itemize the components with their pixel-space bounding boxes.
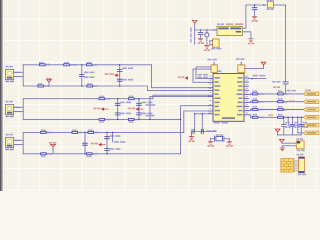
wire J3 pin1 (14, 139, 23, 141)
label Y2 (216, 134, 223, 136)
label CF1 value (285, 126, 290, 128)
label U1 pin name right 2 (237, 81, 243, 83)
label net left of U1 b (146, 115, 155, 117)
pin Y1 b (210, 44, 213, 46)
label red flag left U1 (178, 76, 185, 78)
resistor RO3 (252, 101, 258, 103)
label U2 value (226, 23, 243, 25)
label J4 value (298, 174, 306, 176)
label R8 value inline (105, 119, 110, 121)
junction row2 end (180, 119, 182, 121)
label CF2 (294, 122, 298, 124)
power arrow row1 (115, 74, 120, 77)
label R11 value inline (78, 132, 82, 134)
label U1 pin number right 2 (246, 80, 248, 81)
label U1 pin number right 9 (246, 108, 248, 109)
capacitor CF2 (290, 125, 294, 127)
junction row1 a (81, 64, 83, 66)
connector J2 (6, 104, 20, 114)
wire capf gnd rail (278, 134, 302, 136)
label J2 (6, 101, 13, 103)
junction vin b (206, 29, 208, 31)
label R9 value inline (135, 119, 139, 121)
label Y3 (296, 138, 303, 140)
label VCAP (287, 90, 296, 92)
pin U1 left 2 (209, 81, 214, 83)
capacitor C6 (137, 103, 142, 105)
pin U1 left 5 (209, 94, 214, 96)
wire C13 stub top (254, 5, 256, 8)
wire Y2 gnd right stub (228, 139, 230, 141)
label X2 (236, 58, 244, 60)
label C3 (122, 79, 133, 81)
capacitor C13 (252, 8, 257, 10)
label RO2 value (284, 93, 288, 95)
junction row1 b (81, 85, 83, 87)
port P4 (303, 116, 319, 120)
wire caps C9C10 vertical (106, 132, 108, 153)
label R1 value inline (46, 64, 50, 66)
wire X1 to U1 pin1 (196, 67, 211, 79)
junction row1 c (119, 64, 121, 66)
wire VOUT (242, 5, 267, 28)
label RO1 (253, 90, 257, 92)
pin X1 top (213, 62, 215, 65)
label R4 value inline (44, 85, 49, 87)
junction row3 c (106, 132, 108, 134)
wire split vertical J2 (22, 99, 24, 120)
label U1 pin name left 10 (214, 114, 219, 116)
capacitor CF3 (299, 125, 303, 127)
label J4 (297, 154, 304, 156)
ground Y2 right (227, 141, 231, 144)
label RO7 value (258, 117, 263, 119)
label R14 (87, 156, 91, 158)
resistor R11 (72, 131, 78, 133)
label U1 pin number right 5 (246, 92, 248, 93)
port P6 (303, 131, 319, 135)
wire C11 stub top (200, 30, 202, 33)
label U1 pin number left 6 (209, 96, 211, 97)
junction right pin1 (251, 78, 253, 80)
junction row3 e (112, 132, 114, 134)
label Y3 value (297, 150, 305, 152)
label U1 pin number right 3 (246, 84, 248, 85)
label R3 (87, 62, 91, 64)
regulator U2 body (217, 26, 242, 35)
junction row2 d (138, 119, 140, 121)
label U1 pin name right 4 (237, 89, 242, 91)
label U1 pin name left 7 (214, 102, 219, 104)
label RO6 (278, 106, 282, 108)
wire cap CB drop (201, 114, 203, 132)
label U1 pin name left 1 (214, 77, 220, 79)
label net right pin1 (253, 75, 266, 77)
label U1 pin name left 8 (214, 106, 218, 108)
wire port5 stub (288, 124, 303, 126)
junction vin a (200, 29, 202, 31)
capacitor C10 (105, 149, 110, 151)
port P1 (303, 92, 319, 96)
label GND C11 (198, 42, 204, 44)
label C10 (110, 148, 121, 150)
power arrow row3 (99, 143, 105, 146)
wire Y2 gnd left stub (210, 139, 212, 141)
label U1 pin name right 8 (237, 106, 243, 108)
wire VREF stem row3 (52, 148, 54, 154)
label U1 pin name left 6 (214, 98, 220, 100)
label R9 (129, 121, 133, 123)
wire Y1 left link (209, 41, 211, 45)
resistor R7 (128, 98, 134, 100)
junction capf 3 (300, 117, 302, 119)
wire row2 bottom riser to IC (150, 97, 209, 120)
label R4 (38, 83, 42, 85)
wire VIN (195, 29, 213, 31)
label GND C13 (252, 20, 258, 22)
wire Y3 pin1 (282, 142, 297, 144)
pin U1 left 8 (209, 110, 214, 112)
label RO7 (253, 114, 257, 116)
label R11 (72, 129, 76, 131)
label U1 pin number right 1 (246, 76, 248, 77)
label R13 (41, 156, 45, 158)
label RO6 value (284, 109, 288, 111)
junction p56 a (287, 117, 289, 119)
label U1 pin number left 9 (209, 108, 211, 109)
pin U1 left 3 (209, 87, 214, 89)
label C2 (122, 67, 133, 69)
label Y1 (211, 48, 221, 50)
wire caps under U1 (192, 131, 216, 133)
label RO8 value (284, 117, 288, 119)
label U1 pin number left 8 (209, 104, 211, 105)
resistor R4 (38, 85, 44, 87)
wire J1 to split (14, 71, 23, 73)
label U1 pin name right 7 (238, 102, 243, 104)
pin U1 right 10 (244, 114, 249, 116)
capacitor C1 (79, 74, 84, 76)
capacitor C5 (115, 113, 120, 115)
label net stub row3 (114, 141, 125, 143)
wire row3 bottom rail (23, 153, 180, 155)
sheet background (0, 0, 320, 191)
resistor R1 (40, 64, 46, 66)
wire row3 top to IC (184, 111, 209, 132)
wire J2 pin1 (14, 106, 23, 108)
wire out row 3 (249, 110, 304, 111)
junction row2 a (117, 98, 119, 100)
label red net row4 (269, 114, 273, 116)
power port +5V (192, 21, 197, 25)
label net row3 (91, 143, 98, 145)
label R3 value inline (92, 64, 96, 66)
label net row2 b (128, 108, 135, 110)
wire U1 lower pin wire (195, 113, 209, 115)
label C15 C16 (207, 130, 217, 132)
label U1 (214, 70, 222, 72)
junction capf 1 (283, 117, 285, 119)
label C6 (142, 102, 153, 104)
ic Y1 body (213, 39, 220, 47)
wire row1 top to IC (152, 65, 209, 88)
wire C12 stub bottom (206, 38, 208, 45)
label R13 value inline (47, 153, 52, 155)
label U1 pin name right 6 (238, 98, 242, 100)
label U1 pin number left 4 (209, 88, 211, 89)
wire capf 2 top stub (292, 117, 294, 124)
resistor R13 (41, 153, 47, 155)
ic X2 body (238, 65, 245, 73)
label GND U2 (248, 43, 254, 45)
wire X1 to U1 pin2 (193, 69, 211, 82)
resistor R14 (86, 153, 92, 155)
wire C11 stub bottom (200, 35, 202, 38)
label U1 pin name right 9 (238, 110, 242, 112)
label R10 value inline (47, 132, 52, 134)
capacitor C8 (83, 143, 88, 145)
ground C13 (252, 16, 256, 19)
wire Y2 right (224, 138, 229, 140)
wire capf1 bot (283, 127, 285, 135)
wire capf 1 top stub (283, 117, 285, 124)
pin U1 left 9 (209, 113, 214, 115)
label net left of U1 a (146, 104, 156, 106)
power arrow row2 a (102, 108, 109, 111)
pin U1 right 7 (244, 102, 249, 104)
wire capf3 bot (300, 127, 302, 135)
label C5 (120, 113, 131, 115)
wire row1 top rail (23, 64, 151, 66)
wire row3 bottom to IC (181, 106, 209, 154)
junction c13 (254, 4, 256, 6)
pin U1 left 1 (209, 78, 214, 80)
pin U1 left 4 (209, 90, 214, 92)
wire cap C1 vertical (81, 65, 83, 86)
wire caps C4C5 vertical (117, 99, 119, 120)
label U1 pin number left 1 (209, 76, 211, 77)
pin U1 right 9 (244, 110, 249, 112)
wire port6 stub (298, 132, 304, 134)
label U1 pin number left 7 (209, 100, 211, 101)
crystal Y2 body (215, 136, 224, 142)
wire VCC vertical lower (285, 84, 287, 94)
wire cap CA drop (194, 114, 196, 132)
capacitor C4 (115, 103, 120, 105)
resistor RO2 (278, 93, 284, 95)
label U1 pin number left 3 (209, 84, 211, 85)
label U1 pin name right 3 (238, 85, 242, 87)
pin X2 top (240, 62, 242, 65)
junction row2 b (117, 119, 119, 121)
label C14 (272, 81, 280, 83)
label C9 (110, 135, 121, 137)
left sheet edge (0, 0, 2, 191)
label GND C15 (189, 140, 195, 142)
resistor R3 (86, 64, 92, 66)
label CF2 value (294, 126, 299, 128)
wire J2 pin2 (14, 111, 23, 113)
label R8 (99, 121, 103, 123)
oscillator X1 body (211, 65, 217, 73)
pin U1 right 4 (244, 89, 249, 91)
resistor RO1 (252, 93, 258, 95)
label net flag red (273, 86, 280, 88)
wire net stub row3 (112, 132, 114, 142)
label CF3 (303, 122, 307, 124)
label RO3 (253, 98, 257, 100)
pin U1 right 5 (244, 93, 249, 95)
junction cap CA drop (194, 113, 196, 115)
label net row1 (105, 73, 114, 75)
wire tri2 stem (281, 141, 283, 144)
wire C13 stub bottom (254, 10, 256, 16)
label U1 pin number right 10 (246, 112, 248, 113)
label U1 pin name left 5 (214, 94, 218, 96)
label GND Y2 left (208, 145, 214, 147)
label U2 (217, 23, 224, 25)
label R6 value inline (105, 98, 110, 100)
label RO4 value (284, 101, 288, 103)
label CF1 (285, 122, 289, 124)
label R10 (41, 129, 45, 131)
wire cap C8 vertical (84, 132, 86, 153)
label OSCIN (198, 74, 208, 76)
wire C12 stub top (206, 30, 208, 32)
port P5 (303, 123, 319, 127)
junction row1 d (119, 85, 121, 87)
junction row3 d (106, 153, 108, 155)
wire +5V vertical (194, 25, 196, 45)
ground Y2 left (208, 141, 212, 144)
junction p56 b (297, 117, 299, 119)
label U1 pin name left 9 (214, 110, 220, 112)
power port VCC tri (261, 62, 266, 65)
pin U1 left 7 (209, 105, 214, 107)
connector JP1 striped block (281, 159, 294, 172)
wire split vertical J3 (22, 132, 24, 153)
resistor RO7 (252, 116, 258, 118)
wire row2 top to IC (153, 95, 209, 99)
label U1 pin name right 1 (238, 77, 243, 79)
resistor RO6 (278, 108, 284, 110)
label U1 pin name left 2 (214, 81, 218, 83)
label red out top (305, 90, 311, 92)
wire Y3 pin2 (282, 145, 296, 147)
label C4 (120, 102, 131, 104)
label U1 pin number right 8 (246, 104, 248, 105)
label VREF row1 (46, 78, 51, 80)
label U1 part number (214, 122, 229, 124)
wire row3 top rail (23, 131, 184, 133)
label RO5 value (258, 109, 263, 111)
pin U2 VIN (213, 29, 217, 31)
label R7 (129, 96, 133, 98)
label R5 (87, 83, 91, 85)
label C7 (142, 113, 153, 115)
resistor R9 (128, 118, 134, 120)
capacitor C14 on vertical (283, 82, 288, 84)
junction cap CB drop (202, 113, 204, 115)
ground chain (280, 148, 284, 151)
resistor R8 (99, 118, 105, 120)
label F1 value (267, 8, 274, 10)
capacitor C11 (198, 33, 203, 35)
label C1 value (84, 76, 94, 78)
label net row2 a (93, 108, 100, 110)
wire caps C2C3 vertical (119, 65, 121, 86)
label RO4 (278, 98, 282, 100)
ground U2 (249, 39, 253, 42)
label OSCOUT (198, 77, 208, 79)
resistor R2 (64, 64, 70, 66)
wire C15 gnd stub (191, 132, 193, 137)
label GND C12 (204, 49, 210, 51)
label R2 (64, 62, 68, 64)
wire row1 bottom to IC (147, 86, 208, 91)
wire split vertical J1 (22, 65, 24, 86)
label R6 (99, 96, 103, 98)
wire out row 4 (249, 115, 304, 118)
pin U1 left 6 (209, 96, 214, 98)
power arrow row2 b (136, 108, 143, 111)
connector J3 (6, 137, 20, 147)
label RO1 value (258, 93, 263, 95)
label F1 (267, 0, 273, 2)
pins JP1 to J4 (294, 161, 299, 171)
capacitor C15 (192, 129, 194, 133)
label RO5 (253, 106, 257, 108)
wire capf 3 top stub (300, 117, 302, 124)
label red net row2 (290, 100, 295, 102)
connector J1 body (6, 69, 20, 79)
power port VREF row1 (47, 80, 52, 84)
label R14 value inline (93, 153, 97, 155)
label R2 value inline (70, 64, 76, 66)
resistor R5 (87, 85, 93, 87)
ground C11 (198, 38, 202, 41)
wire caps C6C7 vertical (138, 99, 140, 120)
wire row1 bottom rail (23, 85, 147, 87)
ground C15 (189, 137, 193, 140)
label R7 value inline (135, 98, 139, 100)
label CON2 J2 (6, 116, 14, 118)
wire VREF stem row1 (48, 81, 50, 86)
pin Y1 a (210, 40, 213, 42)
capacitor CF1 (282, 125, 286, 127)
pin U1 right 1 (244, 77, 249, 79)
junction row3 b (84, 153, 86, 155)
pin U1 right 2 (244, 81, 249, 83)
label VREF row3 (49, 142, 56, 144)
label J1 (6, 66, 13, 68)
wire row2 bottom rail (23, 118, 180, 120)
junction capf 2 (292, 117, 294, 119)
label CF3 value (303, 126, 308, 128)
label U1 pin number right 7 (246, 100, 248, 101)
ferrite bead F1 body (267, 1, 273, 8)
label +5V vertical text (190, 28, 192, 43)
capacitor C9 (105, 137, 110, 139)
label U1 pin number left 5 (209, 92, 211, 93)
label R1 (39, 62, 43, 64)
label CON2 J1 (6, 81, 14, 83)
capacitor C3 (117, 79, 122, 81)
resistor RO5 (252, 108, 258, 110)
label R12 value inline (94, 132, 98, 134)
label RO3 value (258, 101, 263, 103)
power arrow left U1 (185, 77, 188, 80)
